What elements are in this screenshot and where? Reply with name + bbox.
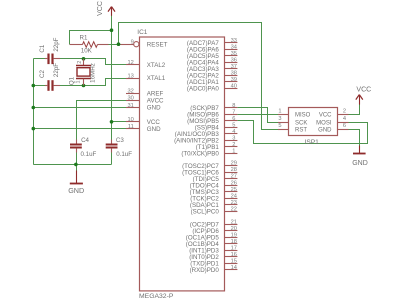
VCC symbol (right, above ISP1) [356,87,371,105]
svg-text:7: 7 [232,109,235,115]
svg-text:12: 12 [127,60,133,66]
svg-text:GND: GND [68,186,84,195]
svg-text:11: 11 [128,124,134,130]
IC1 pin 11 GND stub [126,128,140,130]
svg-text:29: 29 [231,161,237,167]
IC1 pin 34 (ADC6)PA6 stub [225,49,238,51]
IC1 pin 7 (MISO)PB6 stub [225,114,238,116]
wire C3 bottom to GND rail [111,152,113,164]
wire C2 left to GND rail [33,85,45,87]
ground symbol (left) [68,171,84,196]
node VCC pin10 junction [110,120,114,124]
svg-text:5: 5 [278,123,281,129]
IC1 pin 5 (SS)PB4 stub [225,127,238,129]
svg-text:0.1uF: 0.1uF [81,151,97,158]
svg-text:8: 8 [232,103,235,109]
ISP1 pin 1 MISO stub [278,114,289,116]
svg-text:GND: GND [318,128,332,134]
svg-text:37: 37 [231,64,237,70]
svg-text:10: 10 [127,117,133,123]
svg-text:5: 5 [232,122,235,128]
svg-text:18: 18 [231,239,237,245]
capacitor C3 [106,140,118,153]
svg-text:17: 17 [231,245,237,251]
capacitor C4 [70,140,82,153]
svg-text:6: 6 [343,123,346,129]
node RESET junction [117,42,121,46]
svg-text:(SCL)PC0: (SCL)PC0 [191,208,220,215]
svg-text:RST: RST [295,128,307,134]
svg-text:2: 2 [77,61,83,64]
IC1 pin 38 (ADC2)PA2 stub [225,75,238,77]
svg-text:VCC: VCC [319,113,332,119]
IC1 pin 30 AVCC stub [126,100,140,102]
IC1 pin 6 (MOSI)PB5 stub [225,120,238,122]
wire GND pin 11 to rail [33,128,126,130]
IC1 pin 2 (T1)PB1 stub [225,146,238,148]
svg-text:40: 40 [231,83,237,89]
svg-text:R1: R1 [80,34,88,41]
IC1 pin 33 (ADC7)PA7 stub [225,42,238,44]
wire MISO: MCU pin 7 to ISP pin 1 [237,114,278,116]
ISP1 pin 2 VCC stub [338,114,349,116]
svg-text:34: 34 [231,44,237,50]
svg-text:Q1: Q1 [69,76,76,85]
node GND31 rail junction [32,106,36,110]
wire ISP GND pin 6 to GND symbol [349,130,360,147]
svg-text:1: 1 [232,149,235,155]
IC1 pin 18 (OC1B)PD4 stub [225,243,238,245]
svg-text:28: 28 [231,167,237,173]
svg-text:25: 25 [231,187,237,193]
crystal Q1 [76,59,91,86]
svg-text:AVCC: AVCC [147,98,164,105]
svg-text:ISP1: ISP1 [305,139,320,146]
IC1 pin 39 (ADC1)PA1 stub [225,81,238,83]
svg-text:0.1uF: 0.1uF [116,151,132,158]
wire RESET net: R1 right lead to pin 9 [108,44,121,46]
IC1 pin 15 (TXD)PD1 stub [225,263,238,265]
svg-text:24: 24 [231,193,237,199]
svg-text:21: 21 [231,219,237,225]
svg-text:39: 39 [231,77,237,83]
svg-text:3: 3 [232,136,235,142]
svg-text:AREF: AREF [147,90,164,97]
wire GND rail vertical (left, x=33.3) [33,59,35,165]
IC1 pin 23 (SDA)PC1 stub [225,204,238,206]
IC1 pin 24 (TCK)PC2 stub [225,198,238,200]
svg-text:C2: C2 [39,69,46,77]
svg-text:22: 22 [231,206,237,212]
svg-text:MOSI: MOSI [316,120,332,126]
IC1 pin 27 (TDI)PC5 stub [225,178,238,180]
IC1 pin 12 XTAL2 stub [126,64,140,66]
svg-text:SCK: SCK [295,120,307,126]
resistor R1 [70,42,109,48]
svg-text:(RXD)PD0: (RXD)PD0 [190,267,220,274]
VCC symbol (top left) [97,1,115,16]
svg-text:2: 2 [232,142,235,148]
IC1 pin 21 (OC2)PD7 stub [225,224,238,226]
wire C1 left to GND rail [33,58,45,60]
node GND11 rail junction [32,127,36,131]
IC1 pin 37 (ADC3)PA3 stub [225,68,238,70]
svg-text:MISO: MISO [295,113,311,119]
op-amp IC1 MEGA32-P microcontroller body [140,37,225,291]
svg-text:30: 30 [127,96,133,102]
IC1 pin 1 (T0/XCK)PB0 stub [225,153,238,155]
wire GND pin 31 to rail [33,107,126,109]
svg-text:2: 2 [343,108,346,114]
ISP1 pin 5 RST stub [278,129,289,131]
IC1 pin 4 (AIN1/OC0)PB3 stub [225,133,238,135]
node VCC/R1 junction [110,28,114,32]
node XTAL2/C1/crystal junction [82,57,86,61]
wire GND symbol stem (left, green part) [76,164,78,171]
svg-text:XTAL2: XTAL2 [147,62,166,69]
IC1 pin 36 (ADC4)PA4 stub [225,62,238,64]
ground symbol (right, below ISP1) [352,146,368,167]
IC1 pin 20 (ICP)PD6 stub [225,230,238,232]
ISP1 pin 3 SCK stub [278,122,289,124]
svg-text:C1: C1 [39,44,46,52]
wire VCC pin 10 tap [112,121,127,123]
svg-text:16: 16 [231,252,237,258]
wire SCK: MCU pin 8 to ISP pin 3 [238,108,279,123]
svg-text:10K: 10K [81,48,93,55]
svg-text:6: 6 [232,116,235,122]
wire C4 bottom to GND rail junction [76,152,78,164]
svg-text:23: 23 [231,200,237,206]
svg-text:27: 27 [231,174,237,180]
svg-text:19: 19 [231,232,237,238]
IC1 pin 31 GND stub [126,107,140,109]
wire XTAL2 net: C1 right to crystal top node to MCU pin 12 [57,59,127,65]
capacitor C1 [45,54,60,65]
svg-text:9: 9 [131,40,134,46]
svg-text:VCC: VCC [97,1,104,16]
IC1 pin 40 (ADC0)PA0 stub [225,88,238,90]
svg-text:RESET: RESET [147,41,168,48]
IC1 pin 13 XTAL1 stub [126,78,140,80]
wire VCC rail vertical (left, x=111.5) [111,16,113,141]
node GND symbol junction [74,163,78,167]
svg-text:33: 33 [231,38,237,44]
svg-text:VCC: VCC [356,87,371,94]
capacitor C2 [45,80,60,91]
svg-text:1: 1 [76,80,82,83]
IC1 pin 22 (SCL)PC0 stub [225,211,238,213]
wire AVCC pin 30 to C4 top [77,101,127,141]
wire MOSI: MCU pin 6 around bottom to ISP pin 4 [238,121,368,144]
svg-text:16MHz: 16MHz [89,63,96,83]
ISP1 pin 4 MOSI stub [338,122,349,124]
svg-text:(T0/XCK)PB0: (T0/XCK)PB0 [181,151,219,158]
svg-text:22pF: 22pF [53,37,60,51]
IC1 pin 29 (TOSC2)PC7 stub [225,165,238,167]
svg-text:MEGA32-P: MEGA32-P [139,293,174,300]
IC1 pin 8 (SCK)PB7 stub [225,107,238,109]
wire GND rail bottom horizontal to C3 [33,164,111,166]
svg-text:C3: C3 [116,137,124,144]
svg-text:(ADC0)PA0: (ADC0)PA0 [187,85,219,92]
wire XTAL1 net: C2 right to crystal bottom node to MCU pin 13 [57,79,127,86]
svg-text:C4: C4 [81,137,89,144]
IC1 pin 25 (TMS)PC3 stub [225,191,238,193]
node C2/GND rail junction [32,84,36,88]
IC1 pin 17 (INT1)PD3 stub [225,250,238,252]
IC1 pin 28 (TOSC1)PC6 stub [225,172,238,174]
svg-text:13: 13 [127,73,133,79]
svg-text:26: 26 [231,180,237,186]
svg-text:4: 4 [343,116,346,122]
IC1 pin 9 RESET stub [121,44,134,46]
svg-text:1: 1 [278,108,281,114]
svg-text:31: 31 [127,103,133,109]
svg-text:35: 35 [231,51,237,57]
wire ISP VCC pin 2 to VCC arrow [349,105,360,115]
ISP1 pin 6 GND stub [338,129,349,131]
svg-text:IC1: IC1 [137,29,148,36]
svg-text:XTAL1: XTAL1 [147,75,166,82]
svg-text:GND: GND [352,160,368,167]
IC1 pin 14 (RXD)PD0 stub [225,269,238,271]
svg-text:GND: GND [147,126,161,133]
IC1 pin 32 AREF stub [126,93,140,95]
connector ISP1 body [289,108,338,136]
svg-text:22pF: 22pF [53,63,60,77]
IC1 pin 26 (TDO)PC4 stub [225,185,238,187]
wire RESET to ISP RST: up, across top, down right side [119,23,279,130]
wire VCC to R1 (tee at y=29.9 going left then down to R1 left lead) [70,31,112,45]
IC1 pin 19 (OC1A)PD5 stub [225,237,238,239]
svg-text:3: 3 [278,116,281,122]
svg-text:38: 38 [231,70,237,76]
svg-text:20: 20 [231,226,237,232]
svg-text:4: 4 [232,129,235,135]
node XTAL1/C2/crystal junction [82,84,86,88]
IC1 pin 10 VCC stub [126,121,140,123]
IC1 pin 3 (AIN0/INT2)PB2 stub [225,140,238,142]
svg-text:15: 15 [231,259,237,265]
svg-text:14: 14 [231,265,237,271]
IC1 pin 16 (INT0)PD2 stub [225,256,238,258]
svg-text:36: 36 [231,57,237,63]
IC1 pin 35 (ADC5)PA5 stub [225,55,238,57]
svg-text:GND: GND [147,105,161,112]
svg-text:32: 32 [127,88,133,94]
